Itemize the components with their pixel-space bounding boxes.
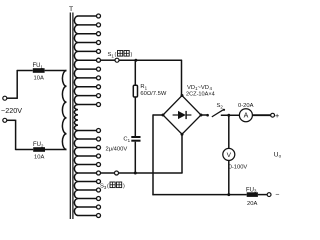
label ammeter range 0-20A [238,103,254,109]
svg-text:R1: R1 [140,84,147,90]
svg-text:S3: S3 [100,184,107,190]
node junction voltmeter bottom rail [227,193,230,196]
node output terminal - [267,193,271,197]
svg-text:(: ( [107,184,109,190]
transformer primary winding [62,71,66,150]
svg-text:FU2: FU2 [33,142,44,148]
svg-text:): ) [123,184,125,190]
node input terminal L (line) [3,96,7,100]
svg-text:20A: 20A [247,201,257,207]
wire FU2 to transformer primary bottom [45,149,67,151]
label FU2 designator [33,142,44,148]
svg-text:0-100V: 0-100V [229,165,248,171]
wire S2 to ammeter [221,114,240,116]
node bridge left corner [162,114,165,117]
label R1 designator [140,84,147,90]
svg-text:T: T [69,6,73,13]
wire bridge left corner stub [153,114,164,116]
label FU1 designator [33,63,44,69]
wire from N terminal to FU2 [7,120,33,150]
svg-text:0-20A: 0-20A [238,103,254,109]
svg-text:VD1: VD1 [187,85,198,91]
svg-text:2μ/400V: 2μ/400V [106,147,128,153]
svg-text:2CZ-10A×4: 2CZ-10A×4 [186,91,215,97]
svg-text:~VD: ~VD [198,85,209,91]
wire from L terminal to FU1 [7,70,33,99]
svg-text:~220V: ~220V [1,106,22,115]
fuse FU2 [33,147,45,152]
svg-text:FU1: FU1 [33,63,44,69]
node output terminal + [271,113,275,117]
label S3 (fine adjust) [100,182,125,190]
capacitor C1 [131,136,140,142]
wire FU3 to - terminal [258,194,267,196]
node S2 fixed contact [206,114,209,117]
wire ammeter to + terminal [252,114,270,116]
node bridge right corner [200,114,203,117]
transformer secondary tap terminals [78,14,101,218]
bridge rectifier VD1-VD4 (diamond) [163,96,201,135]
label C1 designator [123,137,130,143]
fuse FU1 [33,68,45,73]
diode symbol inside bridge [173,111,192,119]
wire S1 tap to wiper [100,59,115,61]
label S1 (coarse adjust) [108,51,133,59]
label S2 designator [217,103,224,109]
wire bottom rail [152,194,246,196]
node junction voltmeter branch [227,114,230,117]
svg-text:10A: 10A [34,76,44,82]
wire junction down to voltmeter [228,115,230,148]
label VD1~VD4 [187,85,213,91]
label output voltage Uo [274,151,282,158]
label - polarity [275,191,279,198]
svg-text:10A: 10A [34,155,44,161]
svg-text:+: + [275,111,279,120]
transformer core [70,13,73,220]
ammeter A [239,109,252,122]
label FU1 value 10A [34,76,44,82]
wire top wire to R1 [134,60,136,85]
fuse FU3 [247,192,258,197]
svg-text:): ) [131,52,133,58]
wire R1 to C1 [134,97,136,136]
label R1 value 60ohm 7.5W [140,91,166,97]
label transformer T [69,6,73,13]
wire voltmeter to bottom rail [228,160,230,195]
resistor R1 [133,85,137,97]
switch S1 wiper contact [115,58,119,62]
wire S3 tap to wiper [100,172,114,174]
wire S3 wiper to bridge bottom corner [119,134,183,173]
svg-text:FU3: FU3 [246,187,257,193]
voltmeter V [223,148,235,160]
svg-text:−: − [275,191,279,198]
transformer secondary winding [74,16,78,216]
svg-text:S2: S2 [217,103,224,109]
node bridge bottom corner [181,133,184,136]
label FU3 designator [246,187,257,193]
label ~220V mains voltage [1,106,22,115]
svg-text:(: ( [115,52,117,58]
node junction R1 branch on top wire [134,59,137,62]
label FU3 value 20A [247,201,257,207]
label + polarity [275,111,279,120]
svg-text:60Ω/7.5W: 60Ω/7.5W [140,91,166,97]
node input terminal N (neutral) [3,118,7,122]
wire FU1 to transformer primary top [45,70,67,72]
label FU2 value 10A [34,155,44,161]
label 2CZ-10A x4 [186,91,215,97]
wire S1 wiper to bridge top corner [119,60,182,96]
node junction C1 branch on S3 wire [134,172,137,175]
label voltmeter range 0-100V [229,165,248,171]
wire bridge right corner to S2 [201,114,208,116]
wire C1 to S3 wire [134,142,136,173]
switch S3 wiper contact [115,171,119,175]
switch S2 blade [212,109,225,117]
label C1 value 2u/400V [106,147,128,153]
node bridge top corner [181,94,184,97]
svg-text:A: A [244,113,249,120]
svg-text:C1: C1 [123,137,130,143]
svg-text:S1: S1 [108,52,115,58]
svg-text:V: V [227,152,232,159]
wire left corner down to bottom rail [152,114,154,195]
